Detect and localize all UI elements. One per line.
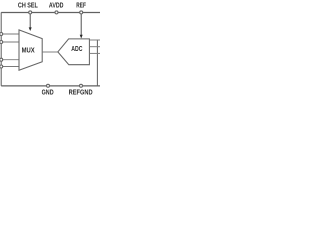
chip outline top border — [1, 12, 100, 14]
pin GND — [47, 84, 50, 87]
svg-text:GND: GND — [42, 90, 54, 97]
svg-text:MUX: MUX — [22, 48, 35, 55]
pin CH SEL — [29, 11, 32, 14]
chip outline bottom border — [1, 85, 100, 87]
svg-text:REFGND: REFGND — [69, 90, 93, 97]
svg-text:CH SEL: CH SEL — [18, 3, 39, 10]
pin REF — [80, 11, 83, 14]
pin input 3 — [0, 58, 3, 61]
wire CH SEL control — [29, 13, 31, 28]
wire input CH2 — [1, 41, 19, 43]
pin input 1 — [0, 33, 3, 36]
wire input CH4 — [1, 66, 19, 68]
arrowhead REF — [80, 35, 83, 39]
wire input CH1 — [1, 33, 19, 35]
svg-text:AVDD: AVDD — [49, 3, 64, 10]
chip outline right border (partial) — [96, 40, 98, 86]
svg-text:ADC: ADC — [71, 46, 82, 53]
wire digital output bit 3 — [89, 52, 100, 54]
arrowhead CH SEL — [29, 27, 32, 31]
adc U2 body — [58, 39, 90, 65]
wire input CH3 — [1, 59, 19, 61]
wire digital output bit 1 — [89, 39, 100, 41]
pin REFGND — [80, 84, 83, 87]
chip outline left border — [0, 12, 2, 85]
wire digital output bit 2 — [89, 46, 100, 48]
pin input 2 — [0, 41, 3, 44]
pin input 4 — [0, 65, 3, 68]
background — [0, 0, 100, 100]
pin AVDD — [55, 11, 58, 14]
wire MUX output to ADC — [42, 51, 58, 53]
mux U1 body — [19, 30, 42, 70]
wire REF to ADC — [80, 13, 82, 36]
svg-text:REF: REF — [76, 3, 86, 10]
